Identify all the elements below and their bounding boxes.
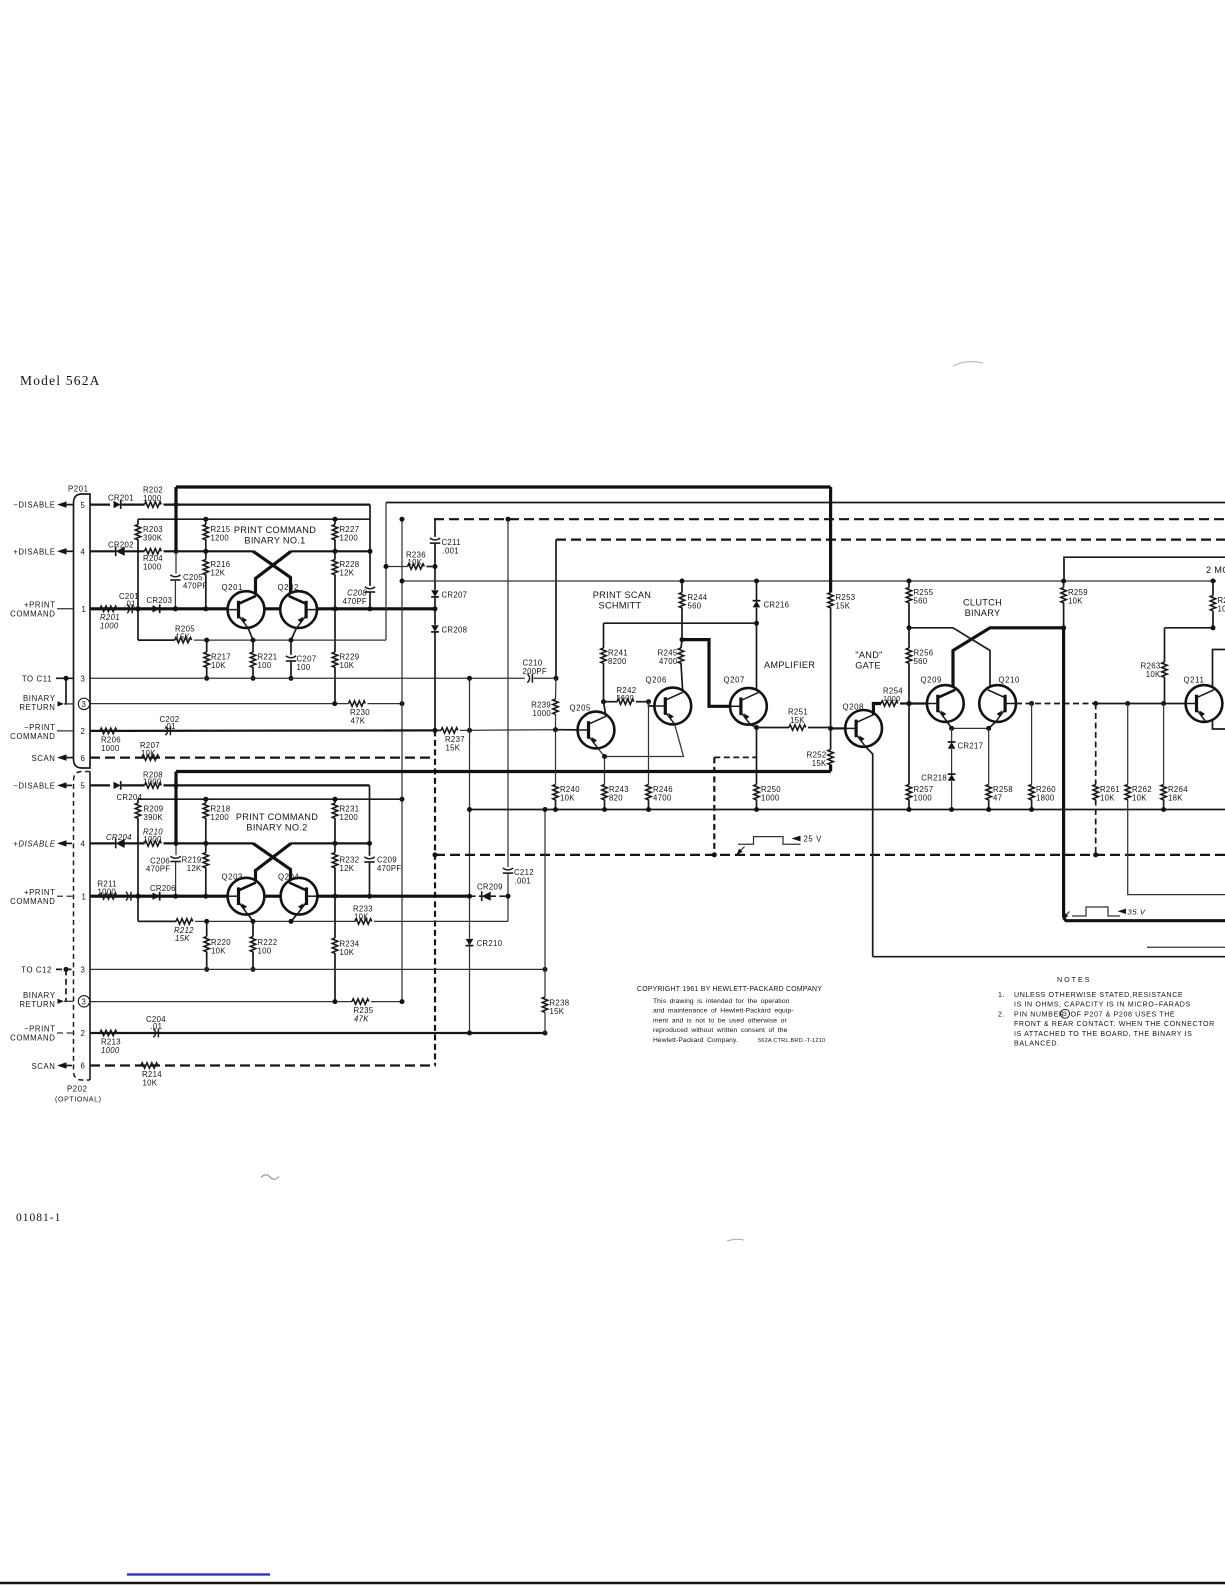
svg-text:P201: P201 — [68, 485, 89, 494]
resistor R209 and box2 left side — [135, 799, 163, 921]
wire Q209 emitter — [947, 722, 951, 729]
svg-text:5: 5 — [81, 501, 86, 510]
svg-text:8200: 8200 — [608, 657, 627, 666]
svg-text:Q206: Q206 — [646, 676, 667, 685]
svg-text:470PF: 470PF — [377, 864, 401, 873]
svg-text:100: 100 — [297, 663, 311, 672]
svg-text:Q211: Q211 — [1184, 675, 1205, 684]
svg-text:3: 3 — [82, 700, 87, 709]
svg-text:200PF: 200PF — [523, 667, 547, 676]
svg-text:IS ATTACHED TO THE BOARD, THE: IS ATTACHED TO THE BOARD, THE BINARY IS — [1014, 1030, 1192, 1038]
resistor R260 — [1029, 704, 1056, 813]
resistor R254 — [881, 687, 928, 707]
svg-text:560: 560 — [688, 601, 702, 610]
capacitor C212 — [503, 868, 534, 922]
svg-text:PRINT COMMAND: PRINT COMMAND — [234, 525, 316, 535]
svg-text:15K: 15K — [812, 759, 827, 768]
svg-text:+DISABLE: +DISABLE — [13, 839, 55, 848]
resistor R237 — [433, 728, 557, 753]
svg-text:1000: 1000 — [98, 887, 117, 896]
resistor R222 — [250, 921, 277, 972]
resistor R238 — [542, 807, 569, 1033]
capacitor C202 — [160, 715, 180, 736]
capacitor C206 — [146, 856, 181, 898]
resistor R251 — [757, 707, 831, 730]
svg-text:10K: 10K — [1068, 596, 1083, 605]
capacitor C207 — [286, 640, 317, 681]
svg-text:01081-1: 01081-1 — [16, 1212, 61, 1224]
transistor Q211 — [1184, 675, 1223, 722]
diode CR206 — [150, 884, 176, 900]
wire dashed bus D — [556, 538, 1225, 540]
svg-text:15K: 15K — [175, 632, 190, 641]
capacitor C209 — [364, 855, 401, 898]
svg-text:.01: .01 — [164, 722, 176, 731]
svg-text:.001: .001 — [443, 547, 459, 556]
svg-text:CR201: CR201 — [108, 494, 134, 503]
svg-text:4: 4 — [81, 840, 86, 849]
svg-text:1000: 1000 — [101, 1046, 120, 1055]
wire vertical x435 C211/CR207/CR208 — [434, 519, 436, 537]
svg-text:820: 820 — [609, 793, 623, 802]
wire vertical x508 — [507, 519, 509, 867]
resistor R262 — [1125, 704, 1225, 895]
wire bottom segment y947 — [1147, 946, 1225, 948]
svg-text:CR216: CR216 — [764, 601, 790, 610]
wire thick Q207 base feed — [682, 640, 731, 707]
wire R263 top link — [1165, 627, 1214, 629]
svg-text:15K: 15K — [550, 1007, 565, 1016]
svg-text:Q203: Q203 — [222, 872, 243, 881]
node +disable stub 2 — [13, 839, 73, 848]
diode CR218 — [921, 774, 955, 813]
resistor R235 — [352, 999, 402, 1024]
svg-text:Q205: Q205 — [570, 704, 592, 713]
wire -print command line binary2 — [90, 1032, 545, 1034]
svg-text:2 MC: 2 MC — [1206, 565, 1225, 575]
svg-text:NOTES: NOTES — [1057, 976, 1091, 984]
svg-text:BINARY NO.1: BINARY NO.1 — [244, 536, 305, 546]
resistor R241 — [601, 623, 628, 702]
resistor R259 — [1061, 579, 1088, 631]
svg-text:10K: 10K — [1218, 604, 1225, 613]
node -print command stub 2 — [10, 1025, 73, 1043]
resistor R215 — [203, 517, 231, 552]
transistor Q204 — [278, 872, 317, 914]
svg-text:2: 2 — [81, 727, 86, 736]
svg-text:Hewlett-Packard Company.: Hewlett-Packard Company. — [653, 1037, 738, 1044]
svg-text:and maintenance of Hewlett-: and maintenance of Hewlett-Packard equip… — [653, 1008, 794, 1015]
resistor R216 — [203, 551, 230, 611]
svg-text:Model 562A: Model 562A — [20, 373, 101, 388]
svg-text:+PRINT: +PRINT — [24, 600, 56, 609]
svg-text:10K: 10K — [1100, 793, 1115, 802]
waveform 25V — [736, 835, 822, 856]
svg-text:CR210: CR210 — [477, 939, 503, 948]
wire Q205 base — [556, 729, 579, 731]
resistor R227 — [332, 517, 359, 552]
svg-text:10K: 10K — [340, 948, 355, 957]
wire pin5 line binary2 — [90, 784, 110, 786]
resistor R240 — [553, 730, 580, 812]
svg-text:BALANCED.: BALANCED. — [1014, 1040, 1060, 1048]
wire pin4 line binary2 — [90, 842, 116, 844]
stray mark tilde — [261, 1175, 279, 1179]
diode CR217 — [948, 728, 984, 774]
svg-text:15K: 15K — [446, 743, 461, 752]
svg-text:CR207: CR207 — [442, 591, 468, 600]
svg-text:RETURN: RETURN — [19, 1000, 55, 1009]
capacitor C210 — [523, 659, 559, 683]
text notes block — [998, 976, 1215, 1048]
svg-text:AMPLIFIER: AMPLIFIER — [764, 660, 815, 670]
node binary return 1 — [19, 694, 73, 712]
svg-text:12K: 12K — [340, 568, 355, 577]
wire dashed vertical x435 lower — [434, 730, 436, 1065]
svg-text:1800: 1800 — [1036, 793, 1055, 802]
svg-text:10K: 10K — [340, 661, 355, 670]
diode CR208 — [431, 625, 467, 730]
resistor R206 — [100, 728, 121, 753]
node scan stub 2 — [31, 1062, 73, 1071]
svg-text:560: 560 — [914, 657, 928, 666]
resistor R255 — [906, 579, 933, 649]
svg-text:12K: 12K — [340, 864, 355, 873]
wire clutch cross coupling — [909, 627, 953, 629]
svg-text:6: 6 — [81, 754, 86, 763]
wire Q205 emitter — [598, 748, 605, 756]
svg-text:This drawing is intended f: This drawing is intended for the operati… — [653, 998, 790, 1005]
transistor Q201 — [222, 583, 265, 628]
svg-text:CR209: CR209 — [477, 883, 503, 892]
node -disable stub 1 — [13, 501, 73, 510]
svg-text:47: 47 — [993, 793, 1002, 802]
capacitor C203 — [126, 892, 131, 901]
svg-text:CLUTCH: CLUTCH — [963, 598, 1002, 608]
resistor R258 — [986, 728, 1013, 812]
svg-text:FRONT & REAR CONTACT. WHEN THE: FRONT & REAR CONTACT. WHEN THE CONNECTOR — [1014, 1020, 1215, 1028]
svg-text:390K: 390K — [144, 813, 164, 822]
transistor Q202 — [278, 583, 318, 628]
svg-text:UNLESS OTHERWISE STATED,RESI: UNLESS OTHERWISE STATED,RESISTANCE — [1014, 991, 1183, 999]
svg-text:COPYRIGHT 1961 BY HEWLETT-P: COPYRIGHT 1961 BY HEWLETT-PACKARD COMPAN… — [637, 986, 822, 993]
svg-text:2.: 2. — [998, 1010, 1005, 1018]
wire TO C11 line — [90, 677, 525, 679]
svg-text:Q204: Q204 — [278, 872, 300, 881]
svg-text:IS IN OHMS, CAPACITY IS IN: IS IN OHMS, CAPACITY IS IN MICRO–FARADS — [1014, 1001, 1191, 1009]
resistor R207 — [140, 741, 160, 760]
node to c11 — [22, 674, 74, 704]
resistor R210 — [143, 827, 370, 846]
svg-text:GATE: GATE — [855, 661, 881, 671]
resistor R230 — [349, 701, 403, 726]
resistor R253 — [828, 593, 855, 750]
resistor R214 — [141, 1063, 162, 1088]
diode CR210 — [466, 939, 503, 1033]
wire bottom resistor rail y809.5 — [470, 809, 1225, 811]
svg-text:CR204: CR204 — [106, 833, 132, 842]
svg-text:BINARY NO.2: BINARY NO.2 — [246, 823, 307, 833]
svg-text:470PF: 470PF — [146, 864, 170, 873]
resistor R205 and emitter line — [138, 625, 386, 643]
resistor R229 — [332, 609, 359, 704]
wire binary return line 2 — [90, 1001, 352, 1003]
resistor R264 — [1161, 704, 1188, 813]
wire vertical x402 — [401, 519, 403, 1001]
svg-text:5600: 5600 — [617, 693, 634, 702]
resistor R221 — [250, 640, 277, 681]
svg-text:reproduced without written: reproduced without written consent of th… — [653, 1027, 788, 1034]
svg-text:1200: 1200 — [340, 813, 359, 822]
transistor Q205 — [570, 704, 615, 749]
resistor R263 — [1141, 628, 1168, 704]
svg-text:25 V: 25 V — [804, 835, 823, 844]
svg-text:Q210: Q210 — [999, 675, 1021, 684]
svg-text:562A CTRL.BRD.-T-1210: 562A CTRL.BRD.-T-1210 — [758, 1038, 825, 1044]
node binary return 2 — [19, 991, 73, 1009]
svg-text:CR217: CR217 — [958, 741, 984, 750]
svg-text:10K: 10K — [211, 661, 226, 670]
resistor R203 and box left side — [135, 519, 163, 640]
svg-text:SCAN: SCAN — [31, 754, 55, 763]
resistor R217 — [204, 640, 231, 681]
wire thick binary2 top bus — [176, 770, 831, 773]
transistor Q206 — [646, 676, 692, 725]
wire Q202 emitter — [291, 628, 297, 641]
resistor R212 and emitter line binary2 — [138, 919, 355, 943]
svg-text:.01: .01 — [124, 600, 136, 609]
wire Q206 base — [649, 702, 656, 706]
svg-text:2: 2 — [81, 1029, 86, 1038]
svg-text:10K: 10K — [1132, 793, 1147, 802]
node +disable stub 1 — [13, 547, 73, 556]
resistor R228 — [332, 551, 359, 611]
wire clutch emitter tie — [952, 727, 989, 729]
resistor R242 — [601, 686, 651, 705]
transistor Q203 — [222, 872, 265, 914]
wire vertical disable drive x176 — [174, 487, 177, 551]
svg-text:470PF: 470PF — [183, 582, 207, 591]
svg-text:390K: 390K — [143, 533, 163, 542]
svg-text:1: 1 — [82, 892, 87, 901]
svg-text:4700: 4700 — [653, 793, 672, 802]
connector P202 — [55, 772, 102, 1104]
svg-text:CR218: CR218 — [921, 774, 947, 783]
transistor Q207 — [724, 676, 767, 725]
svg-text:+DISABLE: +DISABLE — [13, 547, 55, 556]
resistor R202 — [143, 486, 370, 508]
svg-text:15K: 15K — [836, 601, 851, 610]
resistor R261 — [1093, 704, 1120, 855]
svg-text:10K: 10K — [143, 1079, 158, 1088]
svg-text:10K: 10K — [141, 749, 156, 758]
wire cross coupling binary1 — [253, 551, 290, 595]
diode CR203 — [147, 596, 173, 613]
transistor Q209 — [921, 675, 964, 722]
wire Q208 collector riser — [873, 704, 881, 715]
svg-text:1000: 1000 — [532, 709, 551, 718]
resistor R244 — [679, 579, 707, 640]
node +print command stub 1 — [10, 600, 73, 618]
svg-text:PRINT COMMAND: PRINT COMMAND — [236, 812, 318, 822]
resistor R218 — [203, 797, 230, 844]
wire binary2 box top — [138, 798, 402, 800]
svg-text:3: 3 — [1063, 1011, 1067, 1018]
svg-text:10K: 10K — [560, 793, 575, 802]
svg-text:−DISABLE: −DISABLE — [13, 501, 55, 510]
svg-text:.001: .001 — [515, 877, 531, 886]
wire cross coupling binary2 — [253, 843, 290, 881]
svg-text:12K: 12K — [211, 568, 226, 577]
wire vertical x386 — [385, 503, 387, 641]
node -print command stub 1 — [10, 723, 73, 741]
wire vertical x470 CR209/CR210 — [469, 678, 471, 938]
svg-text:BINARY: BINARY — [965, 608, 1001, 618]
svg-text:COMMAND: COMMAND — [10, 609, 55, 618]
resistor R232 — [332, 843, 359, 898]
capacitor C205 — [170, 573, 207, 611]
resistor R246 — [646, 785, 673, 813]
svg-text:560: 560 — [914, 596, 928, 605]
svg-text:"AND": "AND" — [855, 650, 882, 660]
capacitor C211 — [430, 538, 461, 590]
svg-text:1000: 1000 — [143, 835, 162, 844]
resistor R245 — [658, 640, 684, 692]
wire dashed and-gate link — [714, 756, 756, 758]
node scan stub 1 — [31, 754, 73, 763]
svg-text:−PRINT: −PRINT — [24, 723, 56, 732]
wire Q208 emitter long vertical — [866, 747, 873, 957]
svg-text:+PRINT: +PRINT — [24, 888, 56, 897]
svg-text:−DISABLE: −DISABLE — [13, 781, 55, 790]
resistor R220 — [204, 921, 231, 972]
svg-text:1.: 1. — [998, 991, 1005, 999]
svg-text:470PF: 470PF — [343, 597, 367, 606]
svg-text:5: 5 — [81, 782, 86, 791]
capacitor C201 — [119, 592, 139, 613]
diode CR204 — [114, 781, 145, 802]
svg-text:Q208: Q208 — [843, 703, 864, 712]
wire pin5 line binary1 — [90, 504, 110, 506]
capacitor C208 — [343, 587, 376, 612]
svg-text:1200: 1200 — [340, 533, 359, 542]
node pin5/vertical junction — [174, 502, 179, 507]
svg-text:3: 3 — [81, 966, 86, 975]
diode CR202 — [108, 540, 145, 556]
wire binary1 box top — [138, 518, 371, 520]
resistor R236 — [384, 551, 436, 570]
svg-text:10K: 10K — [354, 912, 369, 921]
wire +print command line binary2 — [90, 895, 470, 898]
svg-text:47K: 47K — [354, 1014, 369, 1023]
svg-text:4700: 4700 — [659, 657, 678, 666]
resistor R233 — [353, 904, 508, 924]
resistor R219 — [182, 843, 209, 898]
wire +print command line binary1 — [90, 607, 434, 610]
waveform 35V — [1072, 907, 1146, 917]
resistor R234 — [332, 896, 359, 1001]
resistor R256 — [906, 648, 933, 785]
svg-text:−PRINT: −PRINT — [24, 1025, 56, 1034]
diode CR216 — [753, 579, 790, 691]
wire C209 vertical — [369, 785, 371, 855]
svg-text:35 V: 35 V — [1128, 908, 1146, 917]
wire Q211 collector box — [1213, 650, 1225, 730]
svg-text:10K: 10K — [211, 946, 226, 955]
wire Q206 emitter joined line — [605, 724, 684, 784]
wire Q207 emitter — [750, 725, 756, 785]
wire Q204 emitter — [291, 914, 297, 921]
svg-text:1000: 1000 — [101, 744, 120, 753]
svg-text:TO C11: TO C11 — [22, 674, 52, 683]
wire bottom bus y956.7 — [873, 956, 1225, 958]
wire binary return line R230 — [90, 703, 349, 705]
resistor R211 — [98, 879, 117, 899]
svg-text:P202: P202 — [67, 1085, 88, 1094]
svg-text:(OPTIONAL): (OPTIONAL) — [55, 1096, 102, 1104]
resistor R204 — [143, 549, 371, 572]
svg-text:CR203: CR203 — [147, 596, 173, 605]
svg-text:12K: 12K — [187, 864, 202, 873]
wire Q203 emitter — [248, 914, 253, 921]
svg-text:SCAN: SCAN — [31, 1062, 55, 1071]
bottom edge marks — [127, 1573, 270, 1575]
svg-text:COMMAND: COMMAND — [10, 897, 55, 906]
wire TO C12 line — [90, 968, 545, 970]
svg-text:18K: 18K — [1168, 793, 1183, 802]
node +print command stub 2 — [10, 888, 73, 906]
resistor R239 — [531, 678, 558, 732]
resistor R213 — [100, 1030, 121, 1055]
node R253 junction and thick vertical x830 — [829, 487, 832, 593]
diode CR209 — [467, 883, 511, 901]
resistor R208 — [143, 770, 370, 788]
wire schmitt rail y581 — [402, 580, 1216, 582]
resistor R265 — [1210, 579, 1225, 628]
svg-text:1000: 1000 — [914, 793, 933, 802]
svg-text:Q202: Q202 — [278, 583, 299, 592]
resistor R250 — [754, 785, 781, 813]
svg-text:OF P207 & P208 USES THE: OF P207 & P208 USES THE — [1071, 1010, 1176, 1018]
svg-text:CR206: CR206 — [150, 884, 176, 893]
text copyright block — [637, 986, 825, 1044]
svg-text:1000: 1000 — [143, 778, 162, 787]
svg-text:3: 3 — [81, 675, 86, 684]
wire scan dashed line binary1 — [90, 756, 435, 758]
svg-text:15K: 15K — [175, 934, 190, 943]
svg-text:1000: 1000 — [761, 793, 780, 802]
svg-text:6: 6 — [81, 1062, 86, 1071]
svg-text:PIN NUMBER: PIN NUMBER — [1014, 1010, 1065, 1018]
svg-text:C208: C208 — [347, 588, 367, 597]
svg-text:1000: 1000 — [100, 622, 119, 631]
wire C208 vertical — [369, 505, 371, 586]
wire vertical x556 schmitt feed — [555, 540, 557, 679]
svg-text:COMMAND: COMMAND — [10, 732, 55, 741]
wire thick 35V bus — [1064, 918, 1225, 921]
svg-text:100: 100 — [258, 661, 272, 670]
svg-text:15K: 15K — [790, 716, 805, 725]
svg-text:1: 1 — [82, 605, 87, 614]
wire dashed 25V bus — [435, 854, 1225, 856]
svg-text:1000: 1000 — [143, 494, 162, 503]
stray mark curve — [953, 362, 983, 366]
capacitor C204 — [146, 1015, 166, 1038]
wire Q208 base — [831, 727, 846, 729]
transistor Q210 — [979, 675, 1020, 722]
resistor R231 — [332, 797, 359, 844]
top bus line A — [176, 485, 831, 488]
